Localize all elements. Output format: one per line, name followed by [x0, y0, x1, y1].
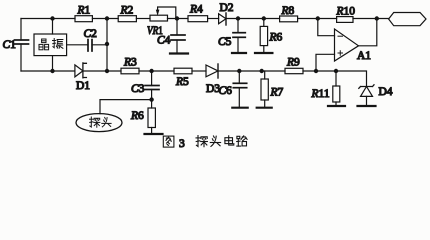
resistor R7: [264, 71, 266, 79]
caption 图 glyph: [163, 136, 174, 147]
zener diode D4: [361, 87, 373, 97]
capacitor C1: [15, 40, 29, 44]
junction node bottom rail x107: [105, 69, 109, 73]
svg-text:3: 3: [179, 138, 185, 150]
svg-text:C2: C2: [84, 28, 98, 40]
wire bottom rail left segment: [21, 70, 75, 72]
wire top rail VR1 to R4: [168, 18, 189, 20]
wire mid vertical x107: [106, 19, 108, 72]
ground for D4: [358, 105, 376, 107]
svg-text:C3: C3: [131, 83, 145, 95]
diode D2: [219, 14, 226, 24]
junction node top rail at crystal: [50, 16, 54, 20]
resistor R3: [121, 68, 139, 74]
svg-text:R6: R6: [130, 110, 144, 122]
capacitor C3: [151, 71, 153, 86]
junction node feedback: [316, 16, 320, 20]
wire bottom rail D1 to R3: [83, 70, 121, 72]
svg-text:R9: R9: [286, 57, 300, 69]
wire crystal to C2: [67, 44, 88, 46]
探 glyph (in ellipse): [90, 117, 100, 127]
resistor R2: [118, 16, 136, 22]
wire left vertical upper (C1 top lead): [20, 19, 22, 41]
resistor R6 (upper): [263, 19, 265, 27]
svg-text:R4: R4: [189, 4, 203, 16]
svg-text:R2: R2: [120, 4, 134, 16]
wire top rail R2 to VR1: [136, 18, 150, 20]
svg-text:R11: R11: [311, 88, 330, 100]
caption 探 glyph: [196, 136, 207, 147]
junction node output: [375, 16, 379, 20]
op-amp A1: [335, 29, 359, 61]
wire left vertical lower (C1 bottom lead): [20, 44, 22, 71]
resistor R5: [174, 68, 192, 74]
capacitor C2: [88, 40, 92, 51]
svg-text:R1: R1: [77, 4, 91, 16]
capacitor C6: [238, 71, 240, 83]
ground for R11: [328, 105, 345, 107]
caption 路 glyph: [237, 136, 247, 146]
resistor R10: [337, 17, 353, 23]
caption 头 glyph: [210, 136, 220, 146]
svg-text:R3: R3: [123, 57, 137, 69]
resistor R9: [285, 68, 303, 73]
junction node C3 top: [149, 69, 153, 73]
svg-text:C5: C5: [218, 36, 232, 48]
wire op-amp output: [359, 19, 377, 46]
wire bottom rail R5 to D3: [192, 70, 206, 72]
wire top rail R10 to hexagon: [353, 18, 389, 20]
wire C2 to mid vertical: [92, 44, 107, 46]
junction node C2 at x107: [105, 42, 109, 46]
wire op-amp + input from bottom rail: [316, 54, 335, 71]
svg-text:A1: A1: [357, 50, 371, 62]
svg-text:C4: C4: [157, 35, 171, 47]
diode D1: [75, 65, 83, 77]
caption 电 glyph: [225, 136, 234, 145]
ground for R6 upper: [255, 52, 272, 54]
junction node C3 bottom probe: [149, 97, 153, 101]
junction node top rail x107: [105, 16, 109, 20]
junction node op-amp plus input: [314, 69, 318, 73]
svg-text:C6: C6: [219, 85, 233, 97]
ground for C5: [232, 52, 246, 54]
wire crystal bottom lead: [52, 56, 54, 71]
svg-text:C1: C1: [3, 39, 17, 51]
diode D3: [206, 65, 218, 77]
resistor R11: [335, 71, 337, 86]
振 glyph: [53, 39, 63, 49]
wire crystal top lead: [52, 19, 54, 35]
wire bottom rail D3 to R9: [218, 70, 285, 72]
svg-text:R10: R10: [336, 6, 356, 18]
ground for R6 lower: [145, 133, 163, 135]
potentiometer VR1: [150, 15, 168, 21]
crystal oscillator box 晶振: [34, 34, 67, 56]
svg-text:R7: R7: [270, 87, 284, 99]
junction node bottom rail crystal: [50, 69, 54, 73]
wire bottom rail R9 to D4 corner: [303, 71, 367, 87]
svg-text:R6: R6: [269, 32, 283, 44]
junction node VR1/C4: [175, 16, 179, 20]
wire top rail R4 to D2: [208, 18, 219, 20]
ground for C6: [232, 107, 247, 109]
resistor R8: [280, 16, 298, 22]
svg-text:R8: R8: [281, 5, 295, 17]
svg-text:R5: R5: [175, 76, 189, 88]
wire top rail R1 to R2: [92, 18, 118, 20]
resistor R4: [188, 16, 208, 22]
probe ellipse 探头: [76, 114, 122, 132]
svg-text:D4: D4: [379, 86, 393, 98]
晶 glyph: [39, 39, 49, 50]
capacitor C4: [176, 19, 178, 36]
wire op-amp feedback from top rail: [318, 19, 335, 36]
头 glyph (in ellipse): [102, 117, 111, 127]
resistor R1: [75, 16, 92, 22]
ground for C4: [170, 52, 188, 54]
resistor R6 (lower): [151, 100, 153, 108]
wire top rail R8 to R10: [298, 18, 337, 20]
junction node R6 upper: [262, 16, 266, 20]
wire top rail D2 to R8: [226, 18, 280, 20]
wire top rail left segment: [21, 18, 75, 20]
junction node C6: [237, 69, 241, 73]
ground for R7: [257, 107, 272, 109]
wire probe branch: [100, 100, 152, 114]
junction node R11: [334, 69, 338, 73]
junction node R7: [260, 69, 264, 73]
output hexagon connector: [389, 13, 426, 26]
wire bottom rail R3 to R5: [139, 70, 174, 72]
capacitor C5: [237, 19, 239, 33]
junction node D2/C5: [236, 16, 240, 20]
svg-text:D1: D1: [76, 80, 90, 92]
svg-text:D2: D2: [220, 2, 234, 14]
